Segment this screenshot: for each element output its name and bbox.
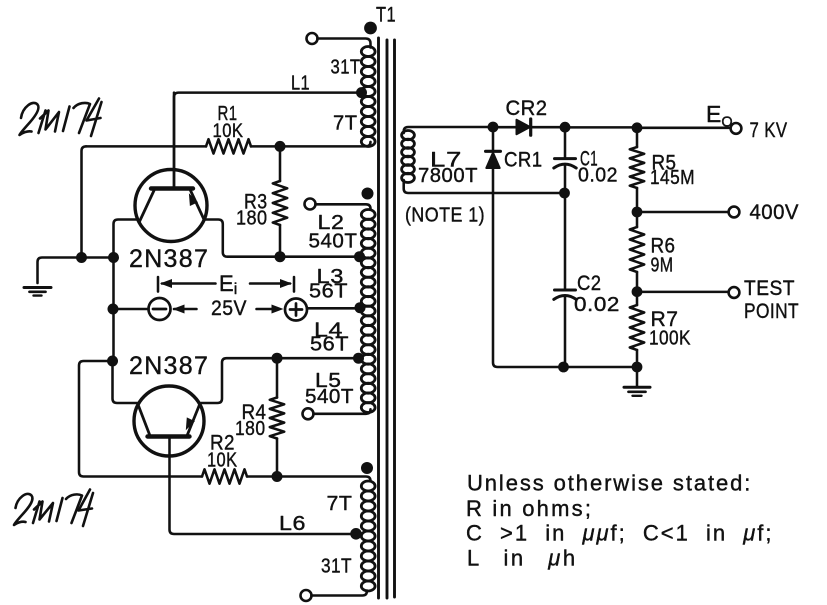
node bus jog junction dot: [107, 356, 118, 367]
svg-text:Unless otherwise stated:: Unless otherwise stated:: [467, 471, 752, 496]
transistor Q1 collector leg: [140, 191, 155, 222]
svg-text:CR1: CR1: [504, 149, 543, 172]
label R6: [651, 235, 676, 258]
label NOTE 1: [405, 205, 485, 227]
svg-text:25V: 25V: [211, 297, 247, 320]
svg-text:2N387: 2N387: [129, 352, 209, 380]
label R3: [244, 191, 268, 214]
diode CR1: [486, 127, 637, 367]
svg-text:0.02: 0.02: [574, 294, 620, 316]
terminal TEST POINT open circle: [729, 287, 740, 298]
note line 2: [466, 496, 593, 521]
label CR2: [506, 97, 548, 120]
winding 7T/31T (bottom primary feedback): [361, 481, 375, 591]
label L5: [315, 369, 342, 392]
phase dot bottom winding: [361, 462, 373, 474]
label R7 value 100K: [649, 328, 691, 350]
label R3 value 180: [236, 208, 268, 230]
svg-text:31T: 31T: [331, 57, 361, 79]
label 31T bottom: [321, 555, 352, 578]
label R7: [651, 308, 679, 331]
wire L7 top lead to node A: [404, 127, 488, 133]
transistor Q1 emitter leg with arrow: [189, 191, 204, 220]
resistor R7 100K: [630, 292, 644, 367]
wire bus to Q2 collector: [113, 361, 140, 403]
node R7 bottom dot: [632, 362, 643, 373]
diode CR2: [517, 119, 531, 135]
transistor Q2 collector leg: [138, 405, 150, 435]
handwritten 2N174 lower: [14, 490, 93, 527]
label 7T bottom: [327, 492, 353, 515]
note line 1: [467, 471, 752, 496]
terminal 400V open circle: [729, 207, 740, 218]
svg-text:540T: 540T: [305, 386, 354, 408]
label C1: [580, 148, 598, 171]
svg-text:L6: L6: [279, 512, 306, 535]
svg-text:10K: 10K: [213, 121, 244, 142]
resistor R2 10K: [202, 469, 371, 483]
wire Q1 collector to bus: [114, 220, 138, 258]
node R4 bottom dot: [272, 471, 283, 482]
label L4 value 56T: [310, 334, 349, 356]
node L4/L5 tap dot: [353, 353, 364, 364]
wire R1 left leg down to ground rail: [82, 146, 87, 257]
svg-text:R in ohms;: R in ohms;: [466, 496, 593, 521]
svg-text:EO: EO: [706, 101, 733, 131]
label 25V: [211, 297, 247, 320]
resistor R5 145M: [630, 128, 644, 212]
label 31T top: [331, 57, 361, 79]
node L2/L3 tap dot: [354, 251, 365, 262]
svg-text:L1: L1: [291, 73, 310, 95]
svg-text:7T: 7T: [327, 492, 353, 515]
label CR1: [504, 149, 543, 172]
annotation Ei right arrow: [250, 279, 292, 288]
resistor R1 10K: [86, 139, 371, 153]
label L3: [317, 265, 345, 288]
transistor Q1 2N387 circle: [135, 170, 207, 242]
wire to 400V terminal: [637, 211, 729, 214]
label Eo: [706, 101, 733, 131]
source plus terminal circle: [285, 299, 307, 321]
node R4 top dot: [272, 353, 283, 364]
transistor Q2 emitter leg with arrow: [186, 404, 200, 435]
svg-text:POINT: POINT: [744, 300, 799, 323]
phase dot winding L2: [362, 188, 374, 200]
svg-text:0.02: 0.02: [578, 165, 618, 187]
label 2N387 lower: [129, 352, 209, 380]
label R4: [242, 401, 267, 424]
wire to test point terminal: [637, 291, 729, 294]
node B dot (CR2/C1): [560, 122, 571, 133]
node R1-R3 junction dot: [275, 141, 286, 152]
svg-text:TEST: TEST: [744, 277, 795, 300]
annotation 25V left arrow: [173, 305, 197, 314]
transistor Q2 base lead and wire to L6 tap: [170, 437, 357, 534]
label R5 value 145M: [650, 167, 695, 189]
node 400V dot: [632, 207, 643, 218]
svg-text:7 KV: 7 KV: [750, 119, 788, 142]
wire Q2 emitter to L4 tap: [200, 358, 359, 403]
svg-text:T1: T1: [376, 4, 396, 27]
label R6 value 9M: [651, 255, 674, 277]
label L5 value 540T: [305, 386, 354, 408]
svg-text:56T: 56T: [309, 281, 348, 303]
label 7T top: [333, 113, 358, 135]
node L1 tap dot: [356, 87, 367, 98]
node center tap dot: [355, 302, 366, 313]
wire bus to minus circle: [113, 308, 149, 311]
svg-text:7T: 7T: [333, 113, 358, 135]
note line 3: [466, 521, 774, 546]
node R3 bottom dot: [275, 251, 286, 262]
label L7: [430, 149, 462, 172]
terminal L5 open circle: [303, 408, 314, 419]
label L4: [314, 319, 343, 342]
ground symbol left: [24, 288, 51, 296]
ground symbol right: [624, 367, 650, 396]
node test point dot: [632, 286, 643, 297]
node ground-bus junction dot: [108, 252, 119, 263]
svg-text:100K: 100K: [649, 328, 691, 350]
source minus terminal circle: [149, 298, 171, 320]
wire bus down to -25V node: [112, 258, 115, 362]
terminal top-left open circle: [307, 33, 318, 44]
svg-text:Ei: Ei: [219, 271, 237, 298]
node R5 top dot: [632, 122, 643, 133]
transistor Q1 base lead: [173, 93, 176, 188]
svg-text:9M: 9M: [651, 255, 674, 277]
terminal L2 open circle: [305, 199, 316, 210]
label L7 value 7800T: [418, 165, 478, 187]
node C2 bottom dot: [558, 362, 569, 373]
wire ground rail: [38, 258, 114, 284]
svg-text:56T: 56T: [310, 334, 349, 356]
capacitor C2 0.02: [554, 193, 576, 367]
svg-text:C >1 in μμf; C<1 in μf;: C >1 in μμf; C<1 in μf;: [466, 521, 774, 546]
terminal Eo open circle: [731, 123, 742, 134]
wire bottom terminal to winding: [311, 591, 367, 596]
label R2: [210, 432, 235, 455]
wire plus circle to center tap: [307, 307, 360, 310]
label L6: [279, 512, 306, 535]
resistor R3 180: [273, 146, 287, 256]
label TEST: [744, 277, 795, 300]
label C2: [577, 272, 602, 295]
label C1 value 0.02: [578, 165, 618, 187]
label R1: [218, 103, 238, 125]
svg-text:(NOTE 1): (NOTE 1): [405, 205, 485, 227]
svg-text:145M: 145M: [650, 167, 695, 189]
terminal bottom open circle: [301, 590, 312, 601]
winding L2/L3/L4/L5 (secondary stack): [361, 210, 375, 413]
annotation 25V right arrow: [257, 305, 284, 314]
transistor Q2 2N387 circle: [134, 386, 204, 456]
node L6 tap dot: [350, 528, 362, 540]
label L3 value 56T: [309, 281, 348, 303]
wire L1 tap to Q1 base: [174, 93, 362, 187]
svg-text:CR2: CR2: [506, 97, 548, 120]
label 7KV: [750, 119, 788, 142]
svg-text:10K: 10K: [207, 450, 238, 472]
wire HV rail node A to Eo: [488, 126, 731, 129]
transistor Q2 base bar: [148, 434, 190, 438]
svg-text:2N387: 2N387: [129, 245, 209, 273]
svg-text:180: 180: [235, 418, 266, 440]
label 2N387 upper: [129, 245, 209, 273]
resistor R6 9M: [630, 212, 644, 292]
label T1: [376, 4, 396, 27]
wire Q1 emitter to L2 tap: [204, 220, 360, 257]
label L2 value 540T: [309, 231, 358, 253]
svg-text:C2: C2: [577, 272, 602, 295]
label 400V: [750, 201, 800, 224]
label POINT: [744, 300, 799, 323]
label L1: [291, 73, 310, 95]
annotation Ei right tick: [293, 277, 296, 292]
wire jog to R2 left leg: [79, 361, 202, 477]
transformer T1 core: [379, 38, 395, 598]
svg-text:7800T: 7800T: [418, 165, 478, 187]
node bus -25V junction dot: [108, 304, 119, 315]
winding 31T/7T (top primary feedback): [361, 47, 375, 147]
capacitor C1 0.02: [554, 127, 576, 193]
wire L5 bottom lead: [313, 409, 370, 414]
label R2 value 10K: [207, 450, 238, 472]
label L2: [318, 211, 345, 234]
note line 4: [467, 546, 578, 571]
annotation Ei left arrow: [160, 279, 216, 288]
annotation Ei left tick: [157, 277, 160, 292]
node A dot (L7/CR1/CR2): [488, 122, 499, 133]
node ground-R1 junction dot: [76, 252, 87, 263]
wire L2 top lead: [315, 204, 370, 209]
phase dot top winding: [364, 22, 377, 35]
label R1 value 10K: [213, 121, 244, 142]
svg-text:L in μh: L in μh: [467, 546, 578, 571]
svg-text:180: 180: [236, 208, 268, 230]
svg-text:31T: 31T: [321, 555, 352, 578]
label R5: [652, 152, 677, 175]
label R4 value 180: [235, 418, 266, 440]
handwritten 2N174 upper: [20, 99, 102, 137]
node D dot (C1/C2/L7 bottom): [559, 188, 570, 199]
wire top terminal to winding: [317, 39, 370, 48]
resistor R4 180: [270, 358, 284, 476]
label C2 value 0.02: [574, 294, 620, 316]
transistor Q1 base bar: [151, 186, 193, 190]
svg-text:540T: 540T: [309, 231, 358, 253]
wire L7 bottom lead to node D: [404, 180, 560, 193]
svg-text:400V: 400V: [750, 201, 800, 224]
label Ei: [219, 271, 237, 298]
winding L7 7800T: [402, 131, 415, 183]
